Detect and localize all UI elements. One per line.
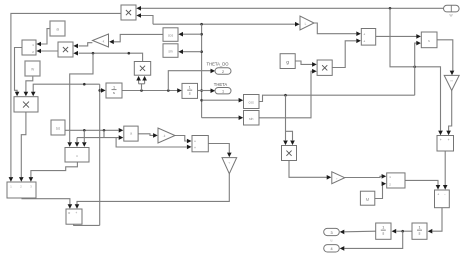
- wire theta vertical x=201.6: [201, 24, 203, 118]
- wire sum S3 output down to sum S4 input 1: [443, 151, 448, 190]
- wire theta to cos1 input: [178, 32, 201, 37]
- squaring product P6: [282, 146, 297, 161]
- wire function block B2 output down-left to subsystem B1 input 3: [29, 162, 78, 182]
- svg-text:+: +: [440, 138, 442, 142]
- svg-text:1: 1: [189, 86, 191, 90]
- wire memory M1 output line h1 to block C1 upper input: [65, 128, 123, 133]
- sum S5: [192, 136, 208, 152]
- wire w feed: oval W1 to product P1 top input, long top line: [136, 6, 443, 11]
- product P4: [134, 62, 150, 76]
- gain K2 pointing right: [158, 128, 175, 143]
- wire gain K6 output down to sum S3 input 2: [446, 91, 451, 136]
- integrator I4: [376, 223, 391, 239]
- outport oval 1 THETA: [215, 88, 231, 94]
- wire gain K3 output to sum S2 upper input: [314, 23, 361, 36]
- svg-text:r: r: [337, 176, 338, 180]
- svg-text:s: s: [113, 91, 115, 95]
- svg-text:sin: sin: [168, 50, 172, 54]
- svg-text:+: +: [437, 193, 439, 197]
- svg-text:1: 1: [382, 226, 384, 230]
- svg-text:-k: -k: [102, 39, 105, 43]
- node N6 junction theta to sin1: [200, 50, 203, 53]
- wire sum S6 output down, right and up the acceleration vertical: [74, 224, 100, 225]
- constant a: [50, 21, 65, 36]
- wire block C1 output to gain K2 input: [138, 133, 158, 138]
- outport THETA_DOT label: [206, 62, 229, 67]
- trig sin2: [244, 111, 260, 126]
- block E1: [421, 32, 437, 48]
- wire branch from y53 line down to function block B2 input 1: [67, 53, 93, 147]
- svg-text:+: +: [363, 32, 365, 36]
- node N5 junction theta to cos1: [200, 33, 203, 36]
- svg-text:1: 1: [222, 90, 224, 94]
- wire product P3 output down to subsystem B1 input 2: [19, 112, 26, 182]
- wire cos1 output left to gain K1 input: [109, 34, 163, 44]
- wire acceleration line y=84.2 feeding product P3 input 3: [31, 84, 100, 96]
- wire integrator I3 output to integrator I4 input: [392, 229, 412, 234]
- wire subsystem B1 bottom to sum S6 input 1: [22, 198, 72, 209]
- block w2: [25, 61, 40, 76]
- svg-text:M: M: [366, 197, 370, 202]
- product P5: [317, 60, 332, 75]
- wire from node N1 down and right to sum S3: [390, 8, 443, 135]
- constant g: [280, 54, 295, 69]
- wire product P4 output up and left to product P2 lower input, y=53.2: [73, 51, 142, 62]
- sum S4: [435, 190, 450, 208]
- gain K3 pointing right: [300, 16, 314, 30]
- wire theta to sin1 input: [178, 49, 201, 54]
- svg-text:u: u: [331, 239, 333, 243]
- function block B2: [65, 148, 89, 163]
- wire acceleration vertical x=99.7 from sum S6 output up: [99, 84, 101, 225]
- wire h2 line to block C1 lower input and down to sum S5 lower input: [77, 130, 192, 149]
- wire theta down to cos2 input: [202, 98, 244, 103]
- wire gain K1 output to product P2 upper input: [73, 43, 92, 49]
- svg-text:+: +: [448, 138, 450, 142]
- trig cos1: [163, 28, 178, 42]
- wire gain K2 output to sum S5 upper input: [175, 136, 192, 144]
- wire integrator I2 output to outport THETA: [198, 88, 216, 93]
- wire block w output down to product P3 input 2: [24, 76, 33, 96]
- product P1: [121, 5, 136, 20]
- wire theta down to sin2 input: [202, 115, 244, 120]
- svg-text:3: 3: [330, 231, 332, 235]
- node N8 junction theta to cos2: [200, 99, 203, 102]
- wire h2 left end down to function block B2 input 2: [75, 138, 80, 147]
- gain K1 pointing left: [93, 34, 109, 47]
- product P2: [58, 42, 73, 57]
- wire vertical x=414.7 from cos line up to block E lower input: [415, 41, 421, 95]
- integrator I2: [182, 83, 198, 98]
- svg-text:+: +: [194, 146, 196, 150]
- svg-text:+: +: [363, 39, 365, 43]
- outport oval 4: [324, 245, 340, 252]
- node N9 junction theta_dot to squaring tap: [140, 89, 143, 92]
- svg-text:THETA_DO: THETA_DO: [206, 62, 229, 67]
- node N16 junction h1 to h2 drop: [103, 129, 106, 132]
- node N13 junction acceleration line: [83, 83, 86, 86]
- wire memory M2 output up to mux D1 input 2: [375, 181, 386, 198]
- node N15 junction h1 line: [83, 129, 86, 132]
- svg-text:1: 1: [418, 226, 420, 230]
- node N11 junction on y53 line: [128, 52, 131, 55]
- svg-text:cos: cos: [249, 101, 255, 105]
- integrator I3: [412, 223, 427, 239]
- integrator I1: [106, 83, 122, 98]
- wire theta line left end up into product P1 lower input: [136, 13, 153, 24]
- wire squaring product P6 output to gain K5 input: [289, 161, 331, 180]
- wire product P5 output up to sum S2 lower input: [332, 39, 361, 68]
- wire block E output right and down to gain K6 input: [437, 40, 454, 75]
- sum S2: [361, 29, 375, 46]
- wire product P2 output to block A1 lower input: [36, 49, 58, 54]
- outport oval 2 THETA_DOT: [215, 68, 231, 75]
- wire sum S5 output right and down to gain K4 input: [208, 144, 231, 158]
- svg-text:-k: -k: [163, 134, 166, 138]
- memory M1: [51, 120, 65, 135]
- svg-text:THETA: THETA: [214, 82, 228, 87]
- node N14 junction acceleration into integrator I1: [98, 89, 101, 92]
- outport THETA label: [214, 82, 228, 87]
- wire sin2 output right then up to product P5 lower input: [259, 69, 317, 118]
- svg-text:s: s: [382, 232, 384, 236]
- node N10 junction theta_dot to outport tap: [167, 89, 170, 92]
- gain K6 pointing down: [444, 75, 459, 90]
- block C1: [124, 126, 138, 141]
- wire constant g to product P5 upper input: [295, 61, 316, 67]
- subsystem B1: [7, 182, 36, 198]
- svg-text:L: L: [305, 22, 307, 26]
- wire theta_dot tap into product P4 both bottom inputs: [136, 76, 147, 91]
- wire cos2 output line to the right, y=95.2: [259, 95, 415, 101]
- svg-text:cos: cos: [168, 34, 174, 38]
- mux D1: [387, 173, 405, 188]
- wire mux D1 output right and down to sum S4 input 2: [405, 180, 440, 189]
- wire branch from h1 down to function block B2 input 3: [82, 130, 87, 147]
- node N4 junction theta line with vertical: [200, 23, 203, 26]
- svg-text:+: +: [75, 211, 77, 215]
- svg-text:4: 4: [330, 247, 332, 251]
- trig cos2: [244, 95, 260, 109]
- wire from node N3 down into squaring product P6 both inputs: [283, 95, 295, 145]
- block A1: [22, 40, 36, 55]
- wire sum S2 output to block E input 1: [376, 34, 421, 39]
- svg-text:1: 1: [113, 85, 115, 89]
- node N3 junction on cos2 line: [284, 94, 287, 97]
- sum S3: [437, 136, 454, 152]
- outport oval 3 sublabel: [331, 239, 333, 243]
- svg-text:sin: sin: [249, 117, 253, 121]
- memory M2: [360, 191, 374, 205]
- svg-text:s: s: [419, 232, 421, 236]
- svg-text:s: s: [189, 92, 191, 96]
- trig sin1: [163, 44, 178, 58]
- outport oval 3: [324, 228, 340, 235]
- wire acceleration into integrator I1 input: [100, 88, 106, 93]
- svg-text:+: +: [194, 139, 196, 143]
- node N12 junction y53 line branch down: [92, 52, 95, 55]
- wire sum S4 output down and left to integrator I3 input: [428, 208, 442, 234]
- svg-text:s: s: [428, 38, 430, 43]
- gain K5 pointing right: [332, 172, 345, 184]
- wire block A1 output down to product P3 input 1: [15, 48, 23, 97]
- svg-text:u: u: [76, 154, 78, 158]
- wire constant a output to block A1 upper input: [36, 29, 50, 47]
- wire theta_dot up to outport THETA_DOT: [168, 69, 215, 91]
- product P3 wide: [14, 97, 38, 112]
- svg-text:M: M: [56, 126, 60, 131]
- svg-text:R: R: [68, 211, 70, 215]
- node N18 junction between integrators I3 and I4: [401, 230, 404, 233]
- sum S6: [66, 209, 82, 224]
- svg-text:2: 2: [222, 70, 224, 74]
- node N2 junction at cross of vertical feed: [413, 66, 416, 69]
- wire gain K4 output down to long bottom line into sum S6 input 2: [75, 174, 230, 209]
- wire gain K5 output to mux D1 input 1: [345, 174, 387, 179]
- wire theta line y=24.2 to gain K3 input: [153, 22, 300, 27]
- gain K4 pointing down: [222, 158, 237, 174]
- node N1 junction on top w line: [389, 7, 392, 10]
- wire theta_dot: integrator I1 output to integrator I2 input: [122, 88, 182, 93]
- wire branch down to outport 4: [340, 231, 403, 251]
- wire product P1 output left and down to subsystem B1 input 1: [9, 13, 121, 181]
- wire integrator I4 output to outport 3: [340, 230, 376, 235]
- source oval W1 w: [444, 5, 460, 17]
- node N7 junction theta at integrator I2 output: [200, 89, 203, 92]
